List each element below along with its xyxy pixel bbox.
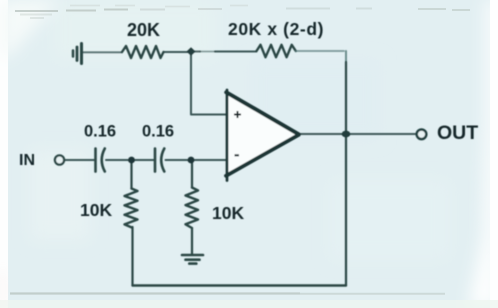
svg-text:0.16: 0.16 — [142, 123, 174, 141]
svg-text:20K: 20K — [127, 20, 160, 40]
svg-text:OUT: OUT — [437, 122, 478, 144]
svg-text:10K: 10K — [212, 203, 244, 223]
svg-text:10K: 10K — [80, 200, 112, 220]
svg-text:0.16: 0.16 — [84, 123, 116, 141]
svg-text:20K x (2-d): 20K x (2-d) — [228, 19, 324, 39]
svg-text:IN: IN — [19, 152, 35, 169]
